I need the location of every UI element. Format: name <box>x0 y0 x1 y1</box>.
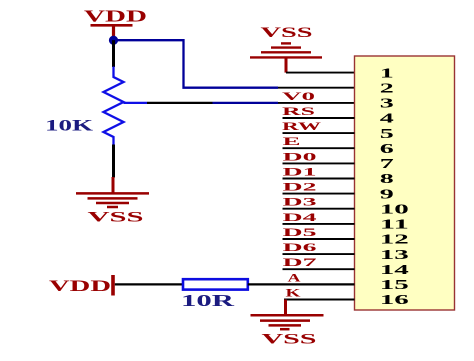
svg-text:3: 3 <box>380 97 394 112</box>
wire pin 4 stub <box>283 117 355 119</box>
ground VSS (bottom right, pin 16) <box>251 300 324 348</box>
wire pin 13 stub <box>283 253 355 255</box>
svg-text:13: 13 <box>380 248 409 263</box>
wire pin 5 stub <box>283 132 355 134</box>
svg-text:7: 7 <box>380 157 394 172</box>
svg-text:14: 14 <box>380 263 409 278</box>
svg-text:10K: 10K <box>45 117 94 134</box>
svg-text:RS: RS <box>282 104 316 118</box>
svg-text:4: 4 <box>380 112 394 127</box>
power port VDD (bottom left) <box>49 275 113 296</box>
svg-text:RW: RW <box>282 119 321 133</box>
wire pin 2 stub <box>278 87 355 89</box>
svg-text:16: 16 <box>380 293 409 308</box>
svg-text:11: 11 <box>380 218 409 233</box>
power port VDD (top) <box>84 7 147 41</box>
potentiometer R1 10K <box>104 67 124 146</box>
wire VDD node to potentiometer top <box>112 40 115 67</box>
wire wiper segment (blue) <box>124 102 148 104</box>
wire wiper segment (black) <box>147 102 213 104</box>
svg-text:D2: D2 <box>283 180 317 194</box>
connector J1 body <box>355 56 455 310</box>
wire pin 14 stub <box>283 268 355 270</box>
svg-text:15: 15 <box>380 278 409 293</box>
svg-text:8: 8 <box>380 172 394 187</box>
svg-text:10: 10 <box>380 202 409 217</box>
wire VDD to resistor R2 <box>115 283 183 285</box>
wire pin 6 stub <box>283 147 355 149</box>
svg-text:D0: D0 <box>283 149 317 163</box>
svg-text:V0: V0 <box>282 89 315 103</box>
wire pin 9 stub <box>283 193 355 195</box>
svg-text:VSS: VSS <box>88 210 144 226</box>
ground VSS (below potentiometer) <box>76 177 149 226</box>
wire pin 10 stub <box>283 208 355 210</box>
node junction at VDD <box>109 36 118 45</box>
wire net V0 to pin 3 <box>213 102 279 104</box>
wire pin 1 <box>286 72 355 74</box>
svg-text:10R: 10R <box>181 291 235 310</box>
svg-text:VSS: VSS <box>262 332 317 348</box>
svg-text:D1: D1 <box>283 165 317 179</box>
svg-text:VDD: VDD <box>84 7 147 26</box>
wire pin 3 stub <box>278 102 355 104</box>
wire pin 8 stub <box>283 178 355 180</box>
power port VSS (top, to pin 1) <box>250 25 322 73</box>
svg-text:A: A <box>288 270 301 284</box>
svg-text:D7: D7 <box>283 255 317 269</box>
svg-text:5: 5 <box>380 127 394 142</box>
wire VDD node to pin 2 (blue) <box>114 40 279 87</box>
wire pin 12 stub <box>283 238 355 240</box>
wire pin 11 stub <box>283 223 355 225</box>
svg-text:VDD: VDD <box>49 278 111 295</box>
svg-text:D4: D4 <box>283 210 317 224</box>
svg-text:12: 12 <box>380 233 409 248</box>
wire pin 16 <box>284 299 355 301</box>
svg-text:VSS: VSS <box>261 25 313 41</box>
svg-text:6: 6 <box>380 142 394 157</box>
wire potentiometer bottom to ground <box>112 145 115 178</box>
svg-text:D5: D5 <box>283 225 317 239</box>
svg-text:2: 2 <box>380 81 394 96</box>
svg-text:1: 1 <box>380 66 394 81</box>
svg-text:D3: D3 <box>283 195 317 209</box>
wire pin 7 stub <box>283 162 355 164</box>
svg-text:E: E <box>283 134 301 148</box>
wire resistor to pin 15 <box>248 283 355 285</box>
svg-text:K: K <box>286 286 302 300</box>
svg-text:9: 9 <box>380 187 394 202</box>
resistor R2 10R <box>183 279 248 289</box>
svg-text:D6: D6 <box>283 240 317 254</box>
